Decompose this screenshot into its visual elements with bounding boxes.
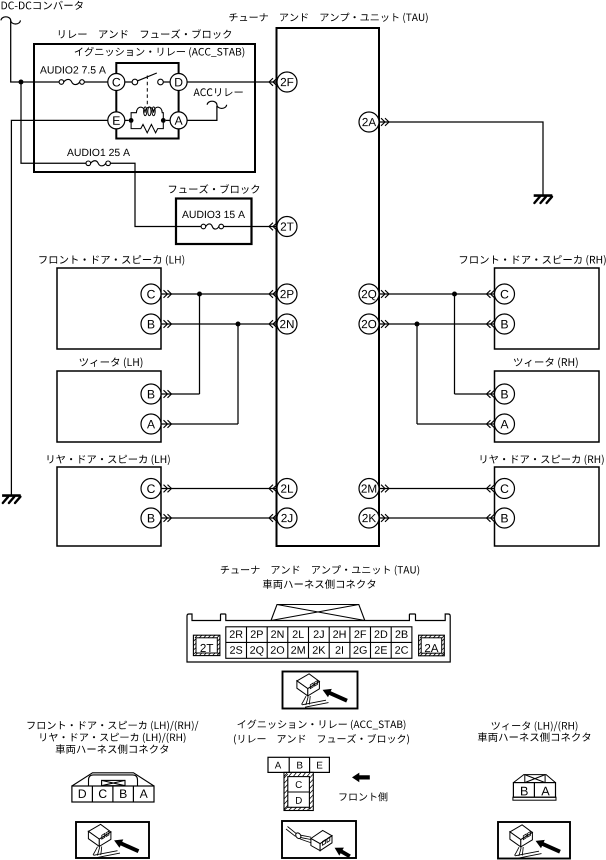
label rear door speaker RH	[481, 455, 604, 465]
connector chevrons TAU 2F	[269, 78, 277, 86]
wire junction down tweeter LH A	[237, 324, 239, 424]
relay and fuse block box	[34, 44, 255, 172]
label tweeter LH	[80, 357, 143, 368]
connector chevrons speaker LH wire y324	[164, 320, 172, 328]
rear door speaker LH pin B	[141, 508, 161, 528]
junction dot LH front C	[197, 292, 202, 297]
label TAU harness connector line1	[221, 565, 419, 575]
dashed actuator link	[146, 76, 148, 105]
break symbol ACC relay wire	[207, 101, 226, 108]
connector chevrons TAU 2O	[381, 320, 389, 328]
junction dot RH front C	[452, 292, 457, 297]
wire DC-DC converter to junction	[11, 20, 21, 82]
rear door speaker RH pin C	[495, 479, 515, 499]
connector chevrons TAU 2P	[269, 290, 277, 298]
label door speaker connector line2	[40, 733, 185, 743]
TAU harness connector shell	[187, 614, 450, 662]
wire AUDIO2 fuse to relay pin C	[84, 81, 108, 83]
wire junction down tweeter RH A	[416, 324, 418, 424]
connector chevrons speaker RH wire y518	[487, 514, 495, 522]
wire AUDIO1 fuse to fuse block	[110, 163, 176, 226]
connector chevrons TAU 2K	[381, 514, 389, 522]
connector chevrons speaker RH wire y324	[487, 320, 495, 328]
wire junction down tweeter RH B	[454, 294, 456, 394]
connector chevrons TAU 2N	[269, 320, 277, 328]
connector TAU 2J	[277, 508, 297, 528]
fuse block box	[176, 199, 252, 245]
label fuse AUDIO2 7.5 A	[40, 66, 106, 73]
connector TAU 2A	[359, 112, 379, 132]
label door speaker connector line3	[56, 744, 169, 754]
label tuner and amp unit (TAU)	[229, 13, 427, 23]
connector chevrons speaker LH wire y518	[164, 514, 172, 522]
label front side	[339, 792, 387, 801]
front door speaker RH box	[495, 268, 600, 349]
connector chevrons speaker RH wire y424	[487, 420, 495, 428]
tweeter connector pin row BA	[513, 783, 555, 798]
label front door speaker LH	[39, 255, 184, 266]
junction dot RH front B	[415, 322, 420, 327]
wire TAU 2M to rear speaker RH C	[379, 488, 495, 490]
resistor parallel with coil	[131, 120, 163, 132]
wire junction down to AUDIO1 fuse	[21, 82, 86, 163]
label door speaker connector line1	[28, 721, 199, 731]
label ignition relay (ACC_STAB)	[75, 47, 245, 58]
ignition relay photo icon	[286, 827, 351, 859]
wire junction down tweeter LH B	[199, 294, 201, 394]
junction dot coil left	[129, 118, 134, 123]
wire relay pin D to TAU 2F	[187, 81, 277, 83]
front door speaker LH box	[57, 268, 161, 349]
front side arrow	[352, 773, 370, 783]
connector chevrons speaker LH wire y294	[164, 290, 172, 298]
wire tweeter RH B	[455, 393, 495, 395]
rear door speaker RH box	[495, 467, 600, 546]
ignition relay box	[116, 63, 178, 139]
wire rear speaker LH C to TAU 2L	[161, 488, 277, 490]
connector chevrons TAU 2M	[381, 485, 389, 493]
switch contact left	[132, 79, 138, 85]
wire junction to AUDIO2 fuse	[24, 81, 60, 83]
connector chevrons speaker LH wire y488.5	[164, 485, 172, 493]
label DC-DC converter	[2, 1, 83, 10]
door speaker connector photo icon	[88, 824, 139, 857]
wire into AUDIO3 fuse	[176, 226, 201, 228]
door speaker connector photo box	[76, 822, 149, 858]
ignition relay photo box	[282, 821, 356, 858]
tweeter connector photo icon	[510, 825, 561, 858]
connector TAU 2M	[359, 479, 379, 499]
switch blade	[137, 73, 156, 81]
wire relay pin C to switch contact	[125, 81, 132, 83]
rear door speaker RH pin B	[495, 508, 515, 528]
wire TAU 2K to rear speaker RH B	[379, 517, 495, 519]
fuse AUDIO3 15A	[201, 224, 223, 229]
relay coil	[131, 107, 163, 120]
tweeter LH box	[57, 371, 161, 442]
front door speaker LH pin C	[141, 284, 161, 304]
TAU connector cavity 2T	[193, 635, 220, 655]
tweeter connector photo box	[498, 822, 570, 859]
wire relay pin A to ACC relay	[187, 106, 217, 120]
ignition relay tower C D	[284, 772, 313, 810]
junction dot LH front B	[236, 322, 241, 327]
connector chevrons speaker LH wire y394	[164, 390, 172, 398]
label rear door speaker LH	[48, 455, 170, 465]
tuner and amp unit box	[277, 28, 380, 546]
label fuse AUDIO3 15 A	[182, 211, 245, 218]
tweeter RH box	[495, 371, 600, 442]
connector chevrons TAU 2J	[269, 514, 277, 522]
connector TAU 2P	[277, 284, 297, 304]
TAU connector pin grid	[226, 627, 412, 659]
label fuse AUDIO1 25 A	[67, 149, 130, 156]
connector TAU 2O	[359, 314, 379, 334]
label ACC relay	[194, 88, 243, 96]
tweeter RH pin A	[495, 414, 515, 434]
connector chevrons TAU 2T	[269, 223, 277, 231]
wire relay pin E to coil junction	[125, 119, 129, 121]
wire relay pin E to body ground	[11, 120, 107, 495]
wire tweeter LH A	[161, 423, 238, 425]
front door speaker LH pin B	[141, 314, 161, 334]
connector chevrons speaker LH wire y424	[164, 420, 172, 428]
connector TAU 2N	[277, 314, 297, 334]
relay pin A	[170, 112, 187, 129]
label tweeter RH	[514, 357, 578, 368]
body ground right	[534, 196, 553, 203]
fuse AUDIO1 25A	[86, 161, 110, 166]
wire switch to relay pin D	[163, 81, 170, 83]
rear door speaker LH pin C	[141, 479, 161, 499]
tweeter LH pin A	[141, 414, 161, 434]
wire TAU 2A to body ground	[379, 122, 543, 195]
connector TAU 2F	[277, 72, 297, 92]
door speaker connector shell	[72, 773, 154, 786]
fuse AUDIO2 7.5A	[59, 79, 84, 84]
front door speaker RH pin C	[495, 284, 515, 304]
wire coil junction to relay pin A	[166, 119, 170, 121]
tweeter RH pin B	[495, 384, 515, 404]
connector chevrons TAU 2L	[269, 485, 277, 493]
TAU connector photo box	[283, 672, 358, 709]
tweeter connector roof	[513, 775, 555, 783]
ignition relay pin row ABE	[268, 757, 329, 772]
label relay and fuse block	[59, 29, 231, 39]
wire TAU 2Q to front speaker RH C	[379, 293, 495, 295]
wire front speaker LH B to TAU 2N	[161, 323, 277, 325]
wire tweeter LH B	[161, 393, 200, 395]
TAU connector pin labels row 2	[230, 646, 242, 654]
wire rear speaker LH B to TAU 2J	[161, 517, 277, 519]
label front door speaker RH	[460, 255, 606, 266]
connector chevrons TAU 2A	[381, 118, 389, 126]
TAU connector pin labels row 1	[230, 630, 243, 638]
wire tweeter RH A	[417, 423, 495, 425]
connector TAU 2Q	[359, 284, 379, 304]
connector TAU 2T	[277, 217, 297, 237]
junction dot power feed	[19, 80, 24, 85]
relay pin E	[108, 112, 125, 129]
wire front speaker LH C to TAU 2P	[161, 293, 277, 295]
front door speaker RH pin B	[495, 314, 515, 334]
tweeter connector base lip	[513, 797, 556, 800]
label ignition relay face line1	[238, 720, 406, 731]
switch contact right	[158, 79, 164, 85]
label ignition relay face line2	[234, 734, 409, 745]
connector chevrons TAU 2Q	[381, 290, 389, 298]
connector TAU 2L	[277, 479, 297, 499]
relay pin D	[170, 74, 187, 91]
label TAU harness connector line2	[263, 579, 376, 589]
body ground left	[2, 496, 21, 503]
door speaker connector pin row DCBA	[72, 786, 154, 802]
tweeter LH pin B	[141, 384, 161, 404]
label tweeter connector line1	[492, 721, 578, 731]
label tweeter connector line2	[478, 732, 591, 742]
break symbol DC-DC converter wire	[1, 17, 20, 24]
connector chevrons speaker RH wire y394	[487, 390, 495, 398]
TAU connector photo icon	[297, 674, 348, 707]
rear door speaker LH box	[57, 467, 161, 546]
junction dot coil right	[161, 118, 166, 123]
connector TAU 2K	[359, 508, 379, 528]
connector chevrons speaker RH wire y294	[487, 290, 495, 298]
wire TAU 2O to front speaker RH B	[379, 323, 495, 325]
wire AUDIO3 fuse to TAU 2T	[224, 226, 278, 228]
TAU connector cavity 2A	[419, 635, 445, 656]
relay pin C	[108, 74, 125, 91]
label fuse block	[169, 184, 259, 194]
relay coil loops	[144, 107, 156, 116]
connector chevrons speaker RH wire y488.5	[487, 485, 495, 493]
TAU connector centre lock tab	[271, 605, 365, 621]
